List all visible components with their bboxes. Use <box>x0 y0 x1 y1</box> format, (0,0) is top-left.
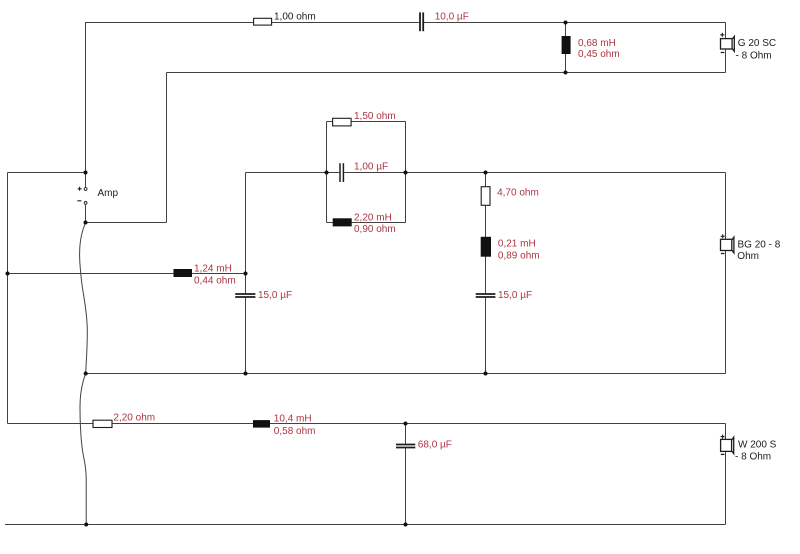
wire bottom rail <box>5 524 726 526</box>
wire L1 inductor vertical <box>565 23 567 73</box>
wire amp plus horizontal <box>8 172 86 174</box>
svg-text:W 200 S: W 200 S <box>738 440 777 451</box>
svg-text:15,0 µF: 15,0 µF <box>498 290 532 301</box>
amp terminal plus <box>78 187 87 191</box>
wire woofer feed <box>8 423 726 425</box>
svg-text:0,68 mH: 0,68 mH <box>578 38 616 49</box>
svg-text:1,00 µF: 1,00 µF <box>354 162 388 173</box>
node L1 bottom <box>564 71 568 75</box>
svg-text:10,0 µF: 10,0 µF <box>435 11 469 22</box>
wire mid shunt branch upper <box>485 173 487 294</box>
svg-text:BG 20 - 8: BG 20 - 8 <box>738 240 781 251</box>
svg-text:Ohm: Ohm <box>737 251 759 262</box>
capacitor C3 15,0 uF plates <box>235 294 255 297</box>
wire midrange node vertical upper (to C3) <box>245 173 247 294</box>
wire amp minus stub <box>85 205 87 223</box>
svg-text:2,20 ohm: 2,20 ohm <box>113 413 155 424</box>
svg-text:G 20 SC: G 20 SC <box>738 38 776 49</box>
speaker W 200 S symbol <box>721 435 734 455</box>
node C3 bottom rail <box>244 372 248 376</box>
resistor R1 1,00 ohm <box>254 18 272 25</box>
node L1 top <box>564 21 568 25</box>
speaker G 20 SC symbol <box>720 33 734 53</box>
inductor L3 1,24 mH <box>174 269 193 277</box>
wire RLC block right vertical <box>405 122 407 223</box>
svg-text:0,90 ohm: 0,90 ohm <box>354 224 396 235</box>
svg-text:4,70 ohm: 4,70 ohm <box>497 188 539 199</box>
wire tweeter right vertical <box>725 23 727 73</box>
wire midrange feed <box>8 273 246 275</box>
wire main mid line right <box>344 172 725 174</box>
svg-text:0,45 ohm: 0,45 ohm <box>578 49 620 60</box>
node minus bottom rail junction <box>84 523 88 527</box>
svg-text:Amp: Amp <box>98 188 119 199</box>
svg-text:0,21 mH: 0,21 mH <box>498 238 536 249</box>
speaker BG 20 symbol <box>721 234 734 253</box>
svg-text:15,0 µF: 15,0 µF <box>258 290 292 301</box>
capacitor C4 15,0 uF plates <box>476 294 496 297</box>
capacitor C2 1,00 uF plates <box>340 163 343 182</box>
inductor L1 0,68 mH <box>562 36 571 54</box>
wire RLC block top branch <box>327 121 406 123</box>
node RLC left <box>325 171 329 175</box>
svg-text:68,0 µF: 68,0 µF <box>418 440 452 451</box>
svg-text:- 8 Ohm: - 8 Ohm <box>736 50 772 61</box>
capacitor C1 10,0 uF plates <box>420 12 423 31</box>
node 68uF bottom <box>404 523 408 527</box>
node 68uF top <box>404 422 408 426</box>
resistor R5 2,20 ohm <box>93 420 112 427</box>
svg-text:1,50 ohm: 1,50 ohm <box>354 111 396 122</box>
svg-text:0,89 ohm: 0,89 ohm <box>498 250 540 261</box>
node minus mid rail junction <box>84 372 88 376</box>
wire 68uF branch upper <box>405 424 407 444</box>
svg-text:10,4 mH: 10,4 mH <box>274 413 312 424</box>
resistor R4 4,70 ohm <box>481 187 490 206</box>
wire RLC block bottom branch <box>327 222 406 224</box>
wire amp minus horizontal <box>86 222 167 224</box>
wire tweeter bottom rail <box>167 72 726 74</box>
node RLC right <box>404 171 408 175</box>
wire amp minus S-curve lower <box>80 374 86 525</box>
resistor R2 1,50 ohm <box>333 118 352 126</box>
amp terminal minus <box>77 201 87 205</box>
wire top rail left segment (amp+ to C1) <box>86 22 420 24</box>
svg-text:1,00 ohm: 1,00 ohm <box>274 11 316 22</box>
node amp plus junction <box>84 171 88 175</box>
svg-text:0,58 ohm: 0,58 ohm <box>274 426 316 437</box>
wire mid shunt branch lower <box>485 298 487 374</box>
inductor L2 2,20 mH <box>333 218 352 226</box>
svg-text:- 8 Ohm: - 8 Ohm <box>735 452 771 463</box>
inductor L5 10,4 mH <box>253 420 270 428</box>
node mid shunt top <box>484 171 488 175</box>
wire RLC block left vertical <box>326 122 328 223</box>
wire mid bottom rail <box>86 373 726 375</box>
wire tweeter return vertical <box>166 73 168 223</box>
capacitor C5 68,0 uF plates <box>396 445 415 448</box>
wire mid right vertical <box>725 173 727 374</box>
wire top rail right segment (C1 to tweeter) <box>424 22 726 24</box>
node amp minus junction <box>84 221 88 225</box>
wire main mid line left <box>246 172 340 174</box>
wire amp minus S-curve upper <box>80 223 88 374</box>
svg-text:0,44 ohm: 0,44 ohm <box>194 276 236 287</box>
node mid feed junction <box>244 272 248 276</box>
node left rail mid feed <box>6 272 10 276</box>
svg-text:1,24 mH: 1,24 mH <box>194 263 232 274</box>
node mid shunt bottom <box>484 372 488 376</box>
wire 68uF branch lower <box>405 448 407 524</box>
wire midrange node vertical lower (C3 to rail) <box>245 298 247 374</box>
wire amp plus vertical <box>85 22 87 187</box>
inductor L4 0,21 mH <box>481 237 491 257</box>
wire left rail <box>7 173 9 424</box>
wire woofer right vertical <box>725 424 727 525</box>
svg-text:2,20 mH: 2,20 mH <box>354 213 392 224</box>
